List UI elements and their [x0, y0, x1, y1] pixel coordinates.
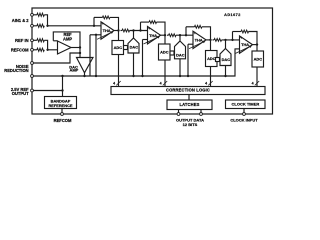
- wire clock timer to clock pin: [243, 109, 245, 115]
- resistor interstage R3: [214, 39, 221, 42]
- svg-text:AMP: AMP: [63, 36, 72, 41]
- node THA1 lower input tap: [95, 34, 97, 36]
- node THA1 feedback tap on input wire: [93, 25, 95, 27]
- block DAC1: [128, 38, 139, 53]
- wire REF IN resistor to corner, down to REFCOM node: [44, 40, 47, 50]
- wire interstage stage2: [167, 34, 169, 36]
- node THA1 lower vertical on rail: [95, 75, 97, 77]
- bus slash ADC2 output: [163, 81, 167, 85]
- op-amp THA3 triangle: [193, 31, 206, 48]
- op-amp REF AMP triangle: [58, 41, 72, 54]
- resistor THA2 feedback: [149, 21, 156, 24]
- wire THA2 feedback top right: [157, 22, 166, 35]
- svg-text:ADC: ADC: [160, 50, 169, 55]
- node DAC3 on rail: [224, 75, 226, 77]
- block ADC3: [206, 51, 218, 67]
- node THA2 output: [164, 34, 166, 36]
- node THA2 lower vertical on rail: [141, 75, 143, 77]
- wire AIN2 to resistor: [33, 25, 37, 27]
- wire THA2 hold switch arrow: [144, 37, 159, 44]
- wire AIN node to THA1 input: [48, 25, 102, 27]
- block LATCHES: [167, 100, 212, 110]
- wire AIN1 resistor to corner, down to AIN2 node: [44, 15, 47, 26]
- wire THA3 hold switch arrow: [189, 41, 204, 48]
- resistor REFCOM: [37, 48, 44, 51]
- pin AIN2: [31, 24, 34, 27]
- op-amp THA1 triangle: [101, 22, 114, 39]
- wire REF AMP feedback loop: [53, 32, 80, 58]
- resistor REF IN: [37, 39, 44, 42]
- wire THA1 output: [114, 30, 119, 32]
- svg-text:CLOCK TIMER: CLOCK TIMER: [232, 102, 260, 107]
- pin output data right: [200, 113, 203, 116]
- svg-text:4: 4: [160, 81, 162, 85]
- svg-text:LATCHES: LATCHES: [179, 102, 199, 107]
- wire THA2 lower vertical to rail: [142, 40, 144, 77]
- resistor AIN2 input: [37, 24, 44, 27]
- wire DAC AMP output to reference rail: [84, 73, 86, 76]
- wire THA1 hold switch arrow: [97, 32, 112, 39]
- svg-text:AMP: AMP: [69, 68, 78, 73]
- wire AIN1 to resistor: [33, 14, 37, 16]
- resistor AIN1 input: [37, 13, 44, 16]
- wire interstage stage1: [121, 30, 123, 32]
- pin CLOCK INPUT: [243, 113, 246, 116]
- wire THA2 lower input: [143, 39, 148, 41]
- node THA3 output: [209, 39, 211, 41]
- node DAC1 tap: [132, 29, 134, 31]
- resistor THA4 feedback: [241, 30, 248, 33]
- svg-text:DAC: DAC: [130, 44, 139, 49]
- svg-text:DAC: DAC: [176, 53, 185, 58]
- node THA3 feedback tap on input wire: [185, 34, 187, 36]
- wire REFCOM node to REF AMP input: [48, 49, 58, 51]
- resistor interstage R2: [169, 34, 176, 37]
- node REF AMP output: [79, 46, 81, 48]
- svg-text:THA: THA: [195, 38, 203, 43]
- wire bandgap vertical to rail: [62, 76, 64, 97]
- wire NOISE REDUCTION upper pin to REF AMP output node: [33, 53, 80, 63]
- wire THA4 hold switch arrow: [236, 46, 251, 53]
- svg-text:REDUCTION: REDUCTION: [4, 68, 28, 73]
- svg-text:ADC: ADC: [207, 56, 216, 61]
- svg-text:DAC: DAC: [222, 57, 231, 62]
- wire THA2 output node down to ADC2: [164, 35, 166, 44]
- op-amp THA2 triangle: [148, 27, 161, 44]
- svg-text:AIN1 & 2: AIN1 & 2: [12, 18, 30, 23]
- svg-text:REFERENCE: REFERENCE: [49, 103, 73, 108]
- wire THA4 feedback loop left: [232, 32, 234, 40]
- label THA4 plus input: [240, 37, 242, 39]
- svg-text:12 BITS: 12 BITS: [183, 122, 198, 127]
- resistor THA3 feedback: [194, 25, 201, 28]
- node DAC3 tap: [224, 39, 226, 41]
- wire reference rail: [33, 49, 235, 76]
- node DAC1 on rail: [132, 75, 134, 77]
- svg-text:REFCOM: REFCOM: [54, 118, 72, 123]
- svg-text:CORRECTION LOGIC: CORRECTION LOGIC: [166, 88, 210, 93]
- chip outline border: [32, 8, 273, 114]
- wire REFCOM to resistor: [33, 49, 37, 51]
- block DAC2: [175, 41, 186, 59]
- block ADC1-DAC1 connector: [124, 46, 128, 50]
- svg-text:THA: THA: [149, 33, 157, 38]
- svg-text:ADC: ADC: [114, 45, 123, 50]
- bus slash ADC3 output: [208, 81, 212, 85]
- label THA3 plus input: [194, 32, 196, 34]
- wire DAC3 tap down: [225, 40, 227, 49]
- wire THA3 feedback top left: [186, 26, 195, 28]
- op-amp DAC AMP triangle: [77, 58, 94, 73]
- wire THA3 lower vertical to rail: [187, 44, 189, 76]
- pin REFCOM bottom: [61, 113, 64, 116]
- wire THA1 feedback top right: [110, 17, 119, 30]
- svg-text:THA: THA: [241, 42, 249, 47]
- node THA4 feedback tap on input wire: [231, 39, 233, 41]
- wire DAC1 output to rail: [133, 53, 135, 76]
- node THA3 lower vertical on rail: [187, 75, 189, 77]
- wire ADC1 output bus to correction logic: [118, 55, 120, 87]
- wire latches output left: [178, 110, 180, 115]
- wire THA2 feedback loop left: [140, 22, 142, 30]
- wire THA4 output: [253, 44, 258, 46]
- wire THA2 feedback top left: [141, 21, 150, 23]
- wire bandgap to bottom REFCOM pin: [61, 109, 63, 115]
- wire THA4 feedback top left: [233, 31, 242, 33]
- wire THA4 feedback top right: [249, 32, 258, 45]
- block ADC4: [252, 51, 264, 67]
- label THA2 plus input: [148, 27, 150, 29]
- svg-text:REFCOM: REFCOM: [11, 47, 29, 52]
- wire THA1 feedback top left: [94, 16, 103, 18]
- wire ADC2 output bus to correction logic: [164, 60, 166, 87]
- wire THA1 lower tap vertical to rail: [95, 35, 97, 76]
- pin AIN1: [31, 13, 34, 16]
- node AIN junction: [46, 25, 48, 27]
- wire interstage stage3: [213, 39, 215, 41]
- wire THA3 feedback loop left: [185, 27, 187, 35]
- block CORRECTION LOGIC: [111, 87, 265, 95]
- node noise reduction tee: [79, 52, 81, 54]
- wire THA3 output: [206, 39, 211, 41]
- svg-text:4: 4: [113, 81, 115, 85]
- wire THA1 lower left vertical to rail: [89, 35, 91, 76]
- wire THA2 output: [161, 34, 166, 36]
- node REF OUTPUT tee: [61, 89, 63, 91]
- wire REF IN to resistor: [33, 39, 37, 41]
- bus slash ADC1 output: [116, 81, 120, 85]
- wire THA1 lower input: [90, 34, 101, 36]
- wire THA1 feedback loop left: [93, 17, 95, 25]
- wire DAC3 output to rail: [225, 66, 227, 77]
- block ADC1: [112, 41, 124, 55]
- node THA2 feedback tap on input wire: [139, 29, 141, 31]
- wire ADC3 output bus to correction logic: [210, 67, 212, 87]
- wire THA3 feedback top right: [202, 27, 211, 40]
- svg-text:4: 4: [252, 81, 254, 85]
- svg-text:REF IN: REF IN: [15, 38, 28, 43]
- wire DAC2 output to rail: [179, 59, 181, 76]
- op-amp THA4 triangle: [240, 36, 253, 53]
- block DAC3: [220, 49, 231, 66]
- block CLOCK TIMER: [226, 100, 266, 109]
- node DAC2 tap: [179, 34, 181, 36]
- resistor THA1 feedback: [102, 16, 109, 19]
- block ADC3-DAC3 connector: [216, 58, 220, 62]
- wire ADC4 output bus to correction logic: [256, 67, 258, 87]
- wire THA3 output node down to ADC3: [210, 40, 212, 51]
- pin REFCOM: [31, 48, 34, 51]
- wire DAC1 tap down: [133, 31, 135, 39]
- pin output data left: [177, 113, 180, 116]
- node bandgap rail junction: [61, 75, 63, 77]
- node DAC AMP output on rail: [83, 75, 85, 77]
- wire latches output right: [200, 110, 202, 115]
- block ADC2-DAC2 connector: [170, 51, 174, 55]
- block ADC2: [159, 44, 171, 60]
- wire correction logic to latches: [188, 95, 190, 101]
- svg-text:CLOCK INPUT: CLOCK INPUT: [230, 118, 258, 123]
- wire THA4 lower input: [235, 48, 240, 50]
- svg-text:THA: THA: [103, 28, 111, 33]
- wire REF AMP output: [71, 47, 80, 49]
- pin 2.5V REF OUTPUT: [31, 89, 34, 92]
- wire DAC2 tap down: [179, 35, 181, 41]
- label THA1 plus input: [102, 23, 104, 25]
- bus slash ADC4 output: [255, 81, 259, 85]
- svg-text:AD1672: AD1672: [224, 13, 241, 17]
- node THA4 output: [256, 43, 258, 45]
- wire 2.5V REF OUTPUT pin: [33, 90, 62, 92]
- wire THA3 lower input: [188, 43, 193, 45]
- pin NOISE REDUCTION upper: [31, 62, 34, 65]
- pin NOISE REDUCTION lower / reference rail: [31, 75, 34, 78]
- pin REF IN: [31, 39, 34, 42]
- node DAC2 on rail: [179, 75, 181, 77]
- resistor interstage R1: [122, 29, 129, 32]
- svg-text:OUTPUT: OUTPUT: [12, 91, 29, 96]
- svg-text:4: 4: [205, 81, 207, 85]
- wire THA1 output node down to ADC1: [118, 31, 120, 41]
- node REFCOM junction: [46, 49, 48, 51]
- node THA1 output: [117, 29, 119, 31]
- block BANDGAP REFERENCE: [45, 97, 77, 109]
- wire THA4 output node down to ADC4: [256, 45, 258, 51]
- wire loop stub to REF AMP noninverting input: [53, 40, 57, 42]
- svg-text:ADC: ADC: [254, 57, 263, 62]
